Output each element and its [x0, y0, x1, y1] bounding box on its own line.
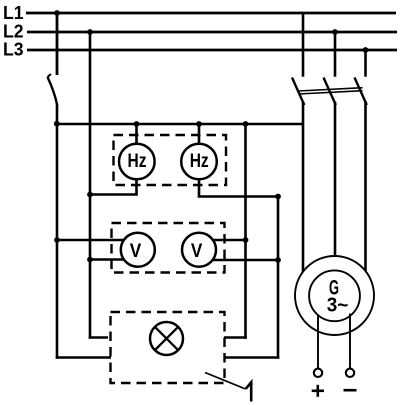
- junction on L2 left: [87, 29, 93, 35]
- wire: pole 3 to generator: [364, 102, 367, 291]
- junction node A: [54, 121, 60, 127]
- label 1: [246, 382, 251, 401]
- wire: Hz1 bottom to L2 drop: [90, 162, 137, 195]
- bus line L3: [27, 49, 397, 52]
- wire: V2 bottom to right drop 2: [200, 259, 278, 262]
- frequency meter Hz1: [119, 144, 155, 180]
- wire: stub to Hz2 top: [198, 124, 201, 161]
- junction wireA / right drop 1: [243, 121, 249, 127]
- junction on L1: [54, 10, 60, 16]
- wire: right drop 2 (sync tap): [277, 197, 280, 359]
- junction V2 top / right drop 1: [243, 237, 249, 243]
- wire: L1 tap down to switch Q1: [56, 13, 59, 75]
- wire: lamp box left upper entry: [89, 336, 108, 339]
- leader line for label 1: [205, 373, 246, 390]
- wire: Hz2 bottom to right drop node: [199, 162, 278, 197]
- wire A: node A to generator phase 1: [57, 123, 303, 126]
- wire: generator phase 1 from L1: [302, 13, 305, 77]
- wire: lamp box right upper entry: [224, 336, 247, 339]
- wire: V1 bottom to L2 drop: [90, 258, 136, 261]
- wire: generator phase 2 from L2: [334, 32, 337, 77]
- terminal +: [314, 369, 322, 377]
- wire: lamp box right lower entry: [224, 356, 279, 359]
- wire: switch Q1 to node A: [56, 104, 59, 241]
- junction Hz1 bottom / L2 drop: [87, 192, 93, 198]
- contactor linkage bar: [299, 88, 363, 91]
- dashed box: voltmeters: [112, 223, 225, 273]
- junction V1 bottom / L2 drop: [87, 257, 93, 263]
- wire: V2 top to right drop 1: [200, 239, 246, 242]
- junction on L3: [363, 47, 369, 53]
- generator G1 outer circle: [295, 256, 374, 335]
- junction Hz2 bottom / right drop 2: [275, 194, 281, 200]
- frequency meter Hz2: [181, 144, 217, 180]
- voltmeter V1: [121, 233, 155, 267]
- label +: [312, 389, 324, 392]
- contactor pole 3 blade: [355, 78, 367, 106]
- generator G1 inner circle: [309, 270, 360, 321]
- wire: V1 top to left drop: [57, 239, 136, 242]
- contactor pole 2 blade: [324, 78, 336, 106]
- svg-text:V: V: [191, 241, 203, 262]
- lamp E1: [150, 322, 183, 355]
- wire: excitation - lead: [349, 314, 351, 369]
- svg-text:L1: L1: [3, 3, 24, 23]
- switch Q1 tick: [48, 74, 52, 77]
- switch Q1 blade: [48, 77, 58, 106]
- junction Hz1 top: [134, 121, 140, 127]
- wire: right drop 1 (sync tap): [244, 124, 247, 339]
- svg-text:3~: 3~: [327, 294, 349, 316]
- junction Hz2 top: [196, 121, 202, 127]
- wire: lamp box left lower entry: [56, 356, 111, 359]
- bus line L1: [26, 12, 396, 15]
- svg-text:Hz: Hz: [190, 151, 209, 172]
- contactor pole 1 blade: [292, 78, 304, 106]
- svg-text:L2: L2: [3, 22, 24, 42]
- dashed box: synchronising lamp unit: [111, 312, 225, 383]
- svg-text:L3: L3: [3, 40, 24, 60]
- junction V2 bottom / right drop 2: [275, 257, 281, 263]
- dashed box: frequency meters: [114, 135, 227, 185]
- wire: excitation + lead: [317, 315, 319, 369]
- wire: pole 2 to generator: [334, 102, 337, 291]
- svg-text:Hz: Hz: [128, 151, 147, 172]
- label -: [344, 389, 357, 392]
- junction V1 top / left drop: [54, 237, 60, 243]
- wire: stub to Hz1 top: [135, 124, 138, 161]
- bus line L2: [27, 31, 397, 34]
- wire: pole 1 to generator: [302, 102, 305, 291]
- svg-text:V: V: [130, 241, 142, 262]
- voltmeter V2: [182, 233, 216, 267]
- terminal -: [346, 369, 354, 377]
- wire: L2 tap down: [89, 32, 92, 339]
- junction on L2 right: [332, 29, 338, 35]
- wire: left drop to lamp row: [56, 239, 59, 359]
- wire: generator phase 3 from L3: [364, 50, 367, 77]
